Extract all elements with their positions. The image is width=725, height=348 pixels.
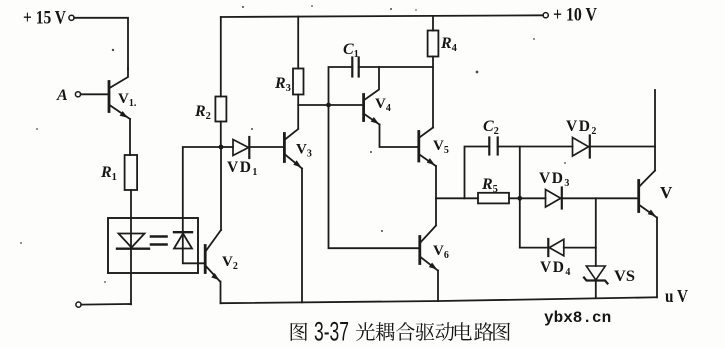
- wire top rail to R2: [220, 17, 222, 97]
- node wire R3 column to V4 base: [298, 104, 363, 106]
- wire C2 left branch: [465, 147, 490, 199]
- svg-text:VS: VS: [614, 268, 635, 285]
- scan specks: [20, 5, 566, 283]
- node A: [56, 87, 81, 104]
- caption Chinese text: [291, 322, 510, 341]
- transistor V6: [420, 226, 449, 272]
- resistor R4: [428, 31, 458, 57]
- zener diode VS: [584, 266, 635, 298]
- output transistor V: [639, 171, 673, 219]
- wire node column down to V6 base: [329, 105, 420, 248]
- wire C2/VD2 line down to VD4 line: [519, 147, 521, 248]
- wire LED cathode to lower-left terminal: [130, 249, 132, 305]
- svg-text:C2: C2: [483, 118, 499, 137]
- +10V supply terminal: [543, 5, 597, 26]
- svg-text:V4: V4: [375, 96, 391, 114]
- svg-text:ybx8.cn: ybx8.cn: [544, 309, 611, 327]
- svg-text:V: V: [660, 183, 673, 202]
- right rail stub: [654, 90, 656, 171]
- svg-text:VD4: VD4: [540, 259, 572, 278]
- capacitor C2: [483, 118, 499, 155]
- wire C1 right to R4 column: [359, 66, 433, 68]
- wire photodiode top to junction wire: [183, 147, 219, 249]
- resistor R2: [194, 97, 226, 123]
- svg-text:V6: V6: [433, 243, 449, 261]
- wire terminal to LED column: [81, 303, 131, 306]
- wire V4 emitter to V5 base: [380, 125, 419, 148]
- svg-text:R2: R2: [194, 103, 211, 122]
- svg-text:V2: V2: [222, 254, 238, 272]
- resistor R1: [100, 155, 137, 190]
- svg-text:3-37: 3-37: [314, 317, 349, 347]
- transistor V4: [364, 67, 391, 126]
- wire R3 to V3 collector: [297, 95, 299, 129]
- transistor V3: [284, 129, 311, 170]
- wire V2 emitter to bottom rail: [220, 282, 222, 304]
- wire V1 emitter to R1: [129, 119, 131, 155]
- wire V emitter to output: [656, 218, 658, 298]
- svg-text:VD2: VD2: [566, 118, 598, 137]
- diode VD4: [520, 239, 596, 278]
- wire R4 to V5 collector: [432, 57, 434, 128]
- transistor V1: [109, 68, 137, 120]
- transistor V2: [205, 230, 238, 282]
- junction node under R2: [219, 145, 224, 150]
- wire R2 to junction: [220, 122, 222, 148]
- wire C2 right to VD2 anode: [498, 146, 573, 148]
- svg-text:u V: u V: [665, 286, 688, 306]
- wire rail to R4: [432, 16, 434, 31]
- junction node right of R5: [517, 196, 522, 201]
- svg-text:VD1: VD1: [227, 159, 259, 178]
- svg-text:+ 15 V: + 15 V: [23, 8, 66, 29]
- top rail to +10V: [221, 15, 543, 17]
- optocoupler photodiode: [174, 232, 192, 248]
- diode VD1: [224, 137, 285, 178]
- svg-text:A: A: [56, 87, 68, 104]
- wire A to V1 base: [81, 93, 108, 95]
- wire V5 emitter node to R5: [436, 197, 478, 199]
- resistor R3: [274, 69, 304, 95]
- capacitor C1: [343, 41, 359, 77]
- wire junction to V2 collector: [220, 147, 222, 230]
- optocoupler light coupling symbol: [151, 237, 167, 245]
- svg-text:R1: R1: [100, 164, 117, 183]
- svg-text:+ 10 V: + 10 V: [553, 5, 597, 26]
- wire V6 emitter to bottom rail: [437, 271, 439, 302]
- wire V5 emitter to V6 collector: [435, 166, 437, 225]
- wire C1 left branch: [329, 67, 353, 105]
- svg-text:R5: R5: [481, 176, 498, 195]
- transistor V5: [419, 128, 449, 168]
- bottom rail: [221, 297, 658, 303]
- wire rail to R3: [297, 17, 299, 69]
- svg-text:R3: R3: [274, 75, 291, 94]
- diode VD2: [566, 118, 655, 158]
- wire +15V to V1 collector: [74, 18, 128, 69]
- svg-text:V1.: V1.: [118, 91, 137, 109]
- wire R5 right to VD3 anode: [509, 197, 546, 199]
- optocoupler box: [108, 218, 198, 273]
- svg-text:VD3: VD3: [539, 170, 571, 189]
- diode VD3: [539, 170, 639, 209]
- wire R1 to LED anode: [130, 190, 132, 248]
- svg-text:V5: V5: [433, 138, 449, 156]
- svg-text:C1: C1: [343, 41, 359, 60]
- input lower terminal: [76, 302, 81, 307]
- junction node C1 branch: [326, 103, 331, 108]
- resistor R5: [478, 176, 509, 203]
- svg-text:V3: V3: [296, 142, 312, 160]
- wire VD3 line down to zener VS: [595, 198, 597, 266]
- +15V supply terminal: [23, 8, 74, 29]
- wire photodiode bottom to V2 base: [183, 249, 205, 264]
- svg-text:R4: R4: [440, 35, 458, 54]
- optocoupler LED: [117, 234, 149, 249]
- wire V3 emitter to bottom rail: [301, 169, 303, 303]
